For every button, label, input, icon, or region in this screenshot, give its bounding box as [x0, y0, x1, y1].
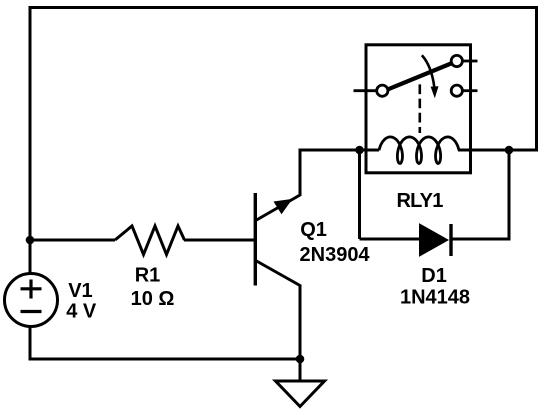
- svg-text:4 V: 4 V: [66, 301, 97, 323]
- wire diode cathode: [451, 238, 509, 241]
- svg-text:2N3904: 2N3904: [300, 244, 371, 266]
- wire emitter vertical: [299, 285, 302, 360]
- diode D1: [420, 224, 452, 256]
- svg-text:R1: R1: [135, 265, 161, 287]
- relay NC stub: [462, 89, 478, 92]
- voltage source V1: [5, 274, 58, 327]
- wire coil right terminal: [458, 149, 471, 152]
- relay pole stub: [354, 89, 378, 92]
- relay actuation arrow: [422, 55, 439, 98]
- wire relay right to rail: [471, 149, 539, 152]
- wire V1 bottom: [29, 327, 32, 361]
- svg-text:Q1: Q1: [300, 219, 327, 241]
- resistor R1: [115, 226, 185, 255]
- ground: [276, 359, 325, 407]
- svg-text:D1: D1: [421, 265, 447, 287]
- svg-text:1N4148: 1N4148: [400, 287, 470, 309]
- relay NO stub: [462, 60, 478, 63]
- wire left rail: [29, 8, 32, 273]
- relay linkage dashed line: [418, 84, 421, 133]
- svg-text:RLY1: RLY1: [396, 190, 443, 212]
- wire relay node to diode anode: [358, 149, 361, 240]
- wire collector vertical: [299, 149, 302, 197]
- relay pole contact: [377, 85, 388, 96]
- svg-text:V1: V1: [68, 280, 92, 302]
- wire R1 to base: [184, 239, 256, 242]
- wire base from node A: [30, 239, 115, 242]
- node A junction dot: [26, 236, 35, 245]
- node ground junction dot: [296, 355, 305, 364]
- relay armature: [388, 64, 451, 90]
- wire diode anode: [360, 238, 421, 241]
- relay NO contact: [451, 55, 462, 66]
- node relay right junction dot: [505, 146, 514, 155]
- transistor Q1: [255, 193, 300, 286]
- relay NC contact: [451, 85, 462, 96]
- node relay left junction dot: [355, 146, 364, 155]
- relay RLY1 box: [366, 45, 471, 173]
- wire right rail: [535, 6, 538, 152]
- wire top rail: [29, 6, 539, 9]
- svg-text:10 Ω: 10 Ω: [131, 288, 175, 310]
- wire bottom rail: [29, 358, 301, 361]
- wire collector to relay coil: [300, 149, 379, 152]
- relay coil: [379, 137, 459, 164]
- wire diode to relay right node: [508, 150, 511, 241]
